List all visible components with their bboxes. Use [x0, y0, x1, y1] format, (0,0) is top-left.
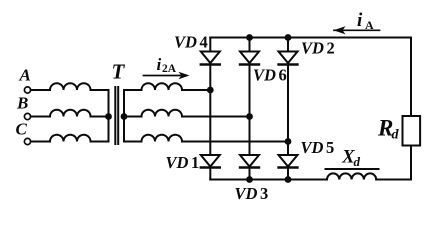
transformer T core	[115, 87, 118, 144]
svg-text:4: 4	[200, 33, 208, 52]
label VD6	[253, 66, 287, 85]
arrow i2A	[144, 72, 190, 80]
svg-text:i: i	[157, 55, 162, 74]
svg-text:VD: VD	[301, 39, 324, 58]
svg-text:VD: VD	[301, 138, 324, 157]
svg-text:5: 5	[326, 138, 334, 157]
label VD2	[301, 39, 335, 58]
wire bridge leg 2	[249, 38, 251, 180]
diode VD2	[279, 52, 298, 65]
wire C terminal to primary winding	[31, 141, 50, 143]
node C terminal	[24, 138, 30, 144]
wire secondary c to bridge leg 3	[182, 141, 288, 143]
wire secondary bus to winding b	[124, 116, 142, 118]
junction bottom rail leg 2	[246, 176, 253, 183]
svg-text:VD: VD	[235, 184, 258, 203]
junction phase a / leg 1	[207, 87, 214, 94]
svg-text:i: i	[357, 10, 363, 31]
secondary winding phase a	[142, 83, 183, 90]
svg-text:1: 1	[191, 153, 199, 172]
junction secondary star point	[121, 113, 128, 120]
wire primary A to star bus	[91, 89, 109, 91]
wire primary star bus	[108, 90, 110, 142]
diode VD4	[201, 52, 220, 65]
wire right side upper	[410, 38, 412, 117]
primary winding phase A	[50, 83, 91, 90]
svg-text:d: d	[392, 128, 400, 143]
label VD4	[174, 33, 208, 52]
label i2A current	[157, 55, 177, 75]
primary winding phase B	[50, 110, 91, 117]
arrow iA	[334, 26, 380, 34]
svg-text:2A: 2A	[162, 63, 177, 75]
wire Xd to bottom right corner	[376, 179, 411, 181]
label VD3	[235, 184, 269, 203]
wire top rail	[210, 37, 411, 39]
wire secondary bus to winding a	[124, 89, 142, 91]
label Xd	[341, 147, 361, 170]
diode VD3	[240, 155, 259, 168]
wire A terminal to primary winding	[31, 89, 50, 91]
primary winding phase C	[50, 135, 91, 142]
svg-text:d: d	[354, 154, 361, 169]
wire secondary a to bridge leg 1	[182, 89, 210, 91]
svg-text:VD: VD	[174, 33, 197, 52]
svg-text:6: 6	[279, 66, 287, 85]
label VD1	[166, 153, 200, 172]
secondary winding phase b	[142, 110, 183, 117]
label Rd	[377, 116, 400, 143]
diode VD6	[240, 52, 259, 65]
inductor Xd core bar	[326, 168, 379, 170]
resistor Rd	[403, 116, 421, 146]
wire secondary b to bridge leg 2	[182, 116, 250, 118]
label iA current	[357, 10, 374, 32]
junction bottom rail leg 3	[285, 176, 292, 183]
junction top rail leg 3	[285, 34, 292, 41]
svg-text:3: 3	[260, 184, 268, 203]
wire B terminal to primary winding	[31, 116, 50, 118]
diode VD5	[279, 155, 298, 168]
diode VD1	[201, 155, 220, 168]
secondary winding phase c	[142, 135, 183, 142]
wire primary B to star bus	[91, 116, 109, 118]
inductor Xd	[327, 173, 376, 179]
wire secondary star bus	[123, 90, 125, 142]
wire bottom rail left	[210, 179, 327, 181]
wire right side lower	[410, 146, 412, 180]
svg-text:VD: VD	[253, 66, 276, 85]
svg-text:VD: VD	[166, 153, 189, 172]
svg-text:C: C	[16, 120, 28, 139]
wire bridge leg 3	[287, 38, 289, 180]
svg-text:2: 2	[327, 39, 335, 58]
svg-text:A: A	[19, 66, 31, 85]
wire primary C to star bus	[91, 141, 109, 143]
label VD5	[301, 138, 335, 157]
svg-text:T: T	[112, 60, 126, 84]
wire secondary bus to winding c	[124, 141, 142, 143]
wire bridge leg 1	[209, 38, 211, 180]
junction phase c / leg 3	[285, 138, 292, 145]
junction top rail leg 2	[246, 34, 253, 41]
svg-text:B: B	[16, 94, 28, 113]
junction phase b / leg 2	[246, 113, 253, 120]
junction primary star point	[105, 113, 112, 120]
node B terminal	[24, 113, 30, 119]
node A terminal	[24, 87, 30, 93]
